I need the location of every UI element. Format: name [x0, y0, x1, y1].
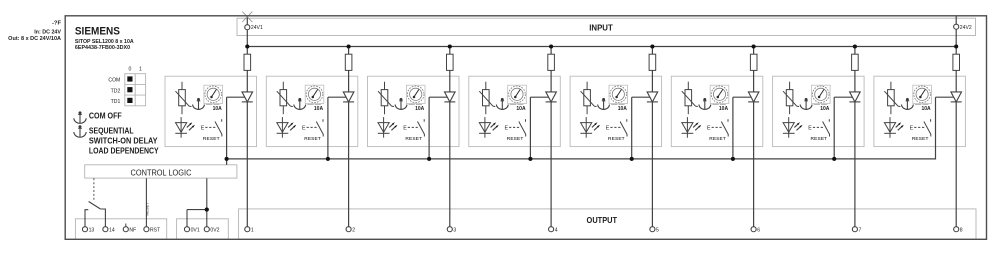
svg-text:4: 4 [555, 227, 558, 233]
svg-text:TD1: TD1 [111, 99, 121, 105]
svg-text:1: 1 [139, 67, 142, 73]
svg-text:RESET: RESET [811, 136, 828, 142]
svg-text:E: E [707, 126, 711, 132]
svg-text:E: E [302, 126, 306, 132]
svg-text:RESET: RESET [145, 202, 150, 216]
svg-text:SWITCH-ON DELAY: SWITCH-ON DELAY [89, 137, 158, 146]
svg-text:RESET: RESET [304, 136, 321, 142]
svg-text:CONTROL LOGIC: CONTROL LOGIC [131, 169, 192, 178]
svg-text:Out: 8 x DC 24V/10A: Out: 8 x DC 24V/10A [8, 36, 61, 42]
svg-text:0V1: 0V1 [191, 227, 200, 233]
svg-text:10A: 10A [314, 106, 324, 112]
svg-text:-?F: -?F [52, 21, 62, 27]
svg-text:24V2: 24V2 [960, 25, 972, 31]
svg-text:OUTPUT: OUTPUT [587, 216, 618, 225]
svg-text:24V1: 24V1 [251, 25, 263, 31]
svg-text:8: 8 [960, 227, 963, 233]
svg-text:13: 13 [89, 227, 95, 233]
svg-text:10A: 10A [618, 106, 628, 112]
svg-text:7: 7 [859, 227, 862, 233]
svg-text:3: 3 [453, 227, 456, 233]
svg-text:SIEMENS: SIEMENS [75, 26, 120, 38]
svg-text:10A: 10A [922, 106, 932, 112]
svg-text:COM: COM [108, 78, 120, 84]
svg-text:6EP4438-7FB00-3DX0: 6EP4438-7FB00-3DX0 [75, 45, 130, 51]
svg-text:E: E [910, 126, 914, 132]
svg-text:INPUT: INPUT [589, 23, 613, 32]
svg-text:RESET: RESET [912, 136, 929, 142]
svg-text:NF: NF [129, 227, 136, 233]
svg-text:COM OFF: COM OFF [89, 112, 122, 121]
svg-text:1: 1 [251, 227, 254, 233]
svg-text:5: 5 [656, 227, 659, 233]
svg-text:E: E [606, 126, 610, 132]
svg-text:RESET: RESET [608, 136, 625, 142]
svg-text:E: E [505, 126, 509, 132]
svg-text:RST: RST [150, 227, 160, 233]
svg-text:E: E [201, 126, 205, 132]
svg-text:RESET: RESET [507, 136, 524, 142]
svg-text:0V2: 0V2 [210, 227, 219, 233]
svg-text:RESET: RESET [203, 136, 220, 142]
svg-text:TD2: TD2 [111, 88, 121, 94]
svg-text:E: E [403, 126, 407, 132]
svg-text:6: 6 [757, 227, 760, 233]
svg-text:0: 0 [129, 67, 132, 73]
svg-text:10A: 10A [415, 106, 425, 112]
svg-text:RESET: RESET [405, 136, 422, 142]
svg-text:10A: 10A [213, 106, 223, 112]
svg-text:10A: 10A [516, 106, 526, 112]
svg-text:10A: 10A [719, 106, 729, 112]
svg-text:10A: 10A [820, 106, 830, 112]
svg-text:2: 2 [352, 227, 355, 233]
svg-text:14: 14 [109, 227, 115, 233]
svg-text:E: E [808, 126, 812, 132]
svg-text:In: DC 24V: In: DC 24V [34, 30, 61, 36]
svg-text:RESET: RESET [709, 136, 726, 142]
svg-text:LOAD DEPENDENCY: LOAD DEPENDENCY [89, 147, 160, 156]
svg-text:SEQUENTIAL: SEQUENTIAL [89, 126, 134, 135]
svg-text:SITOP SEL1200 8 x 10A: SITOP SEL1200 8 x 10A [75, 39, 134, 45]
